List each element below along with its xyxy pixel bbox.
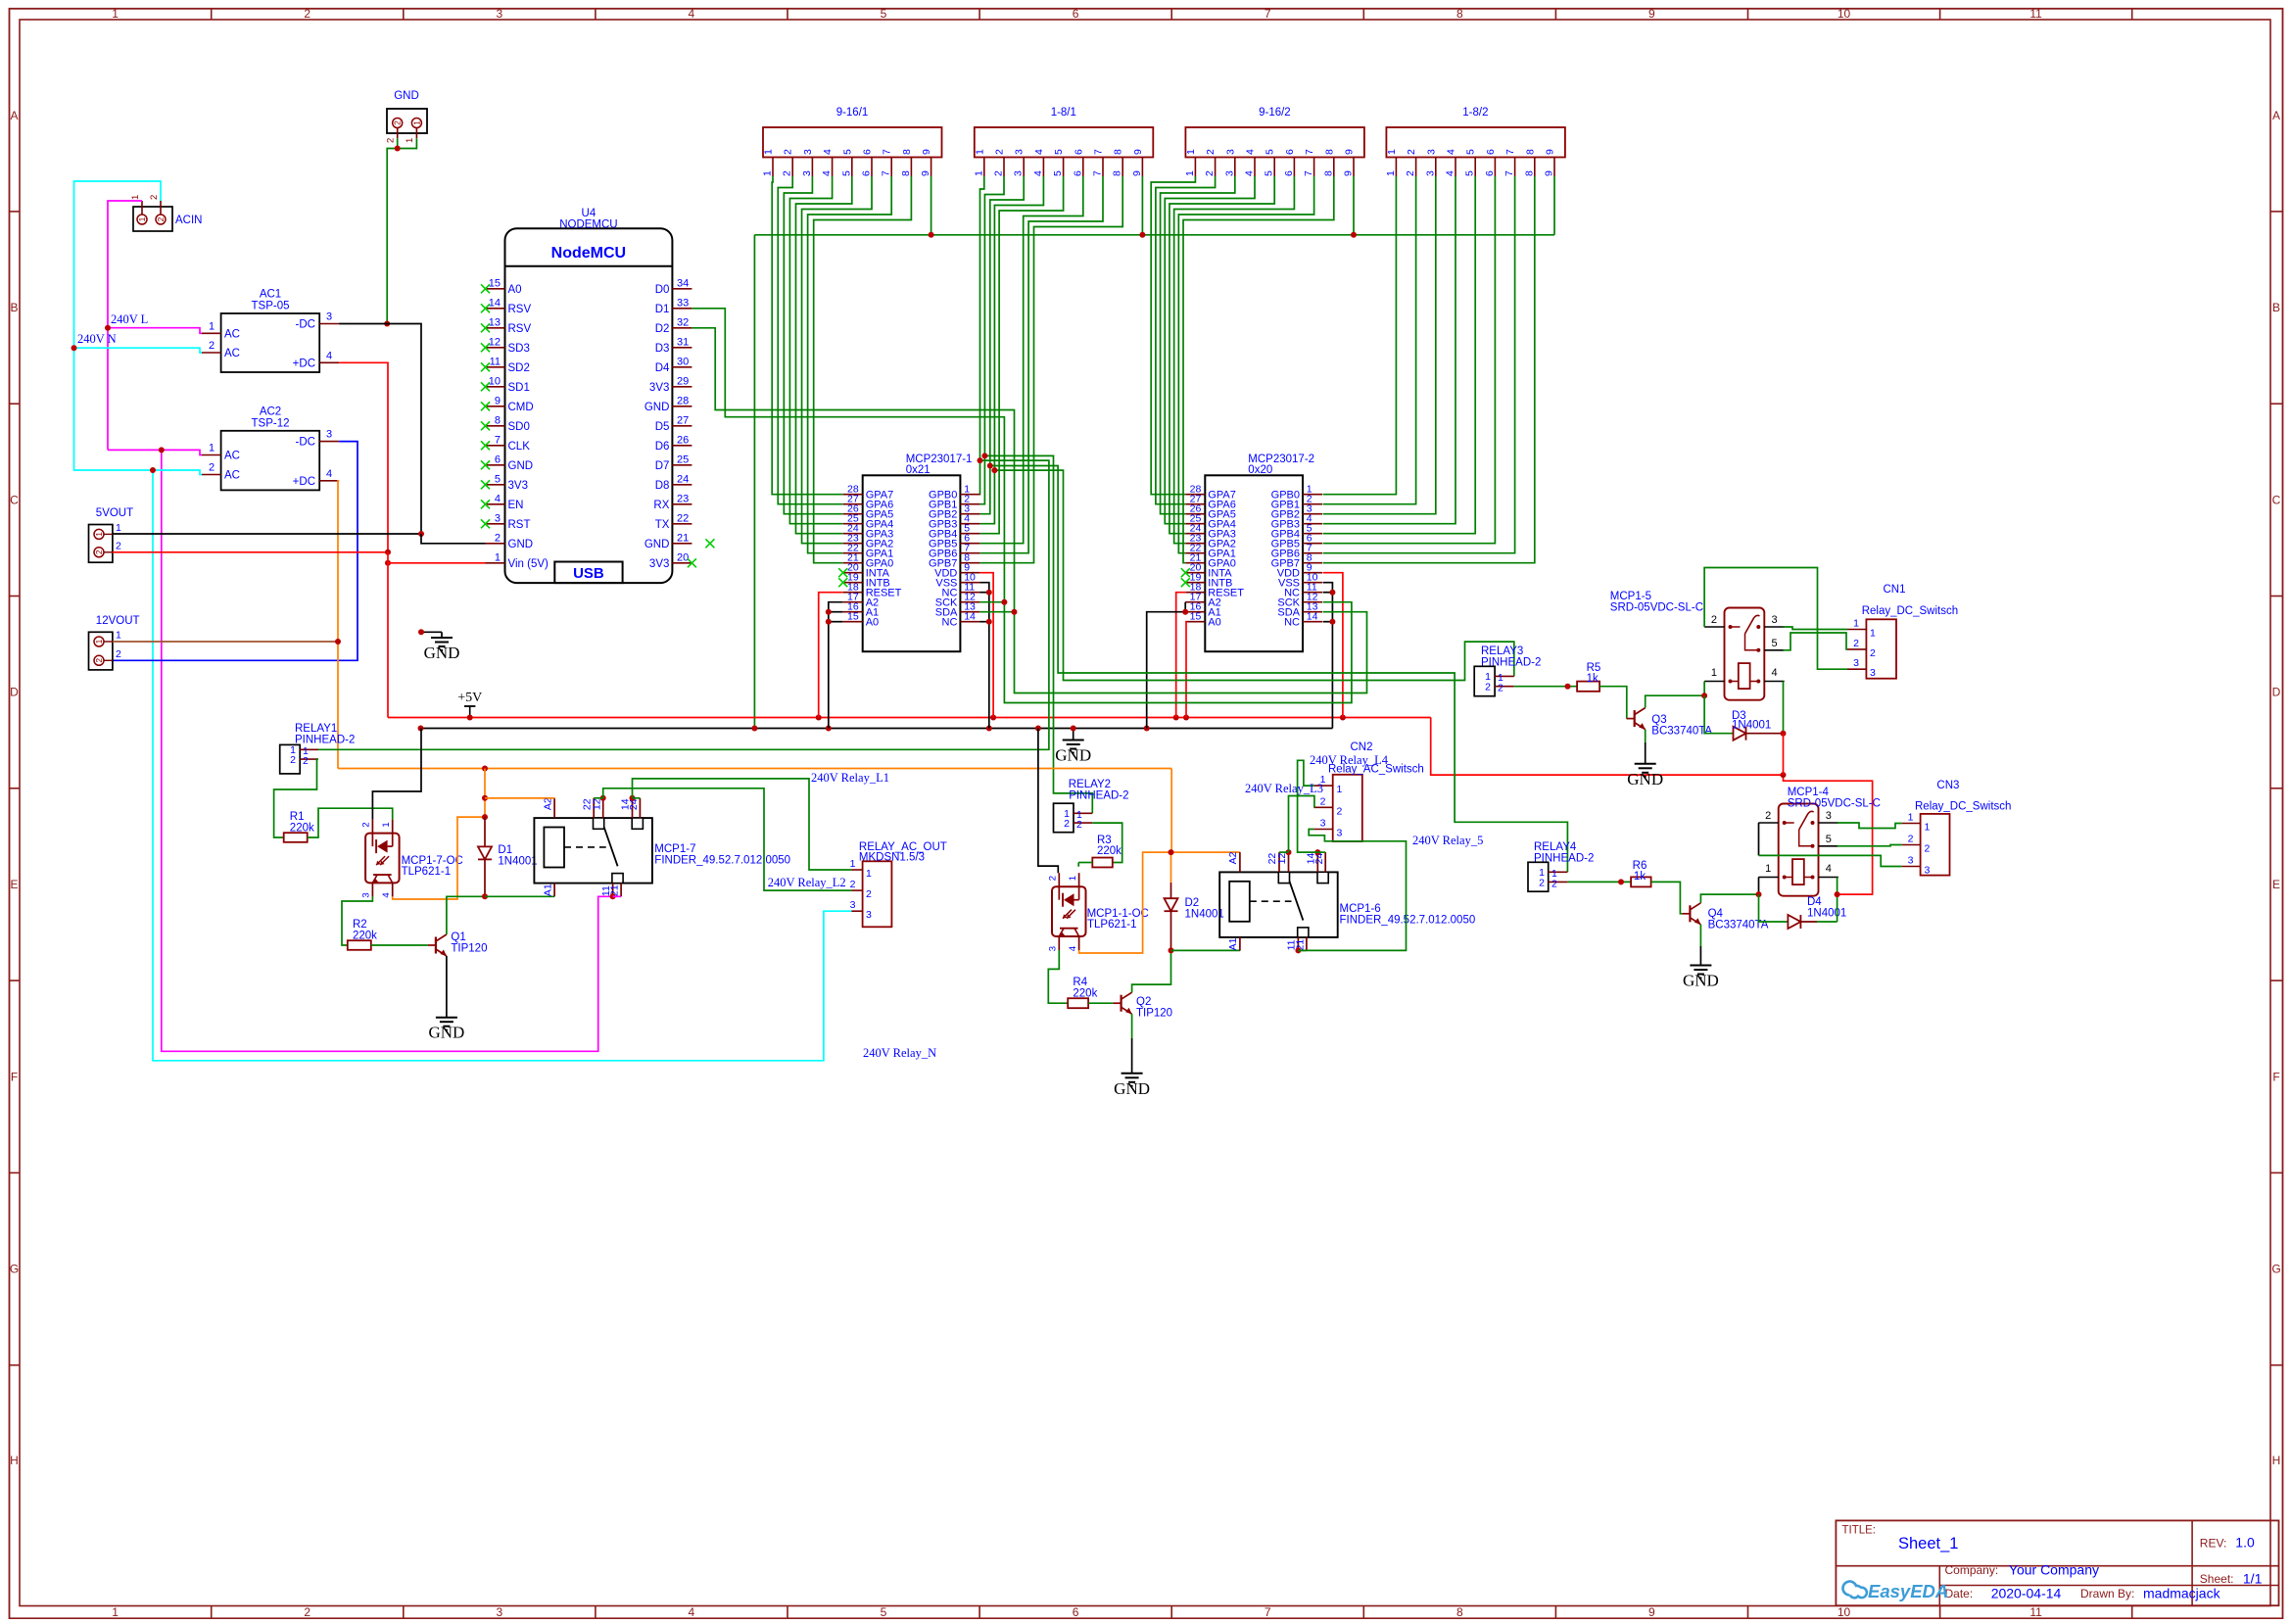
junction MCP2 NC pins — [1329, 590, 1335, 625]
svg-text:2: 2 — [1485, 681, 1491, 693]
svg-text:9: 9 — [1545, 149, 1556, 155]
junction GPB1 branch — [981, 453, 987, 458]
wire MCP1 A2 A1 A0 black — [829, 602, 843, 729]
svg-text:EasyEDA: EasyEDA — [1868, 1581, 1948, 1601]
wire R2 to Q1 base — [371, 944, 428, 946]
svg-text:MKDSN1.5/3: MKDSN1.5/3 — [859, 852, 925, 864]
svg-text:D1: D1 — [655, 304, 670, 315]
svg-text:24: 24 — [677, 473, 689, 485]
svg-text:2: 2 — [1551, 878, 1557, 889]
svg-text:26: 26 — [677, 434, 689, 446]
svg-text:4: 4 — [1445, 170, 1456, 176]
wire MCP1 GPB2 to RELAY4 — [990, 466, 1568, 873]
svg-text:GND: GND — [1055, 746, 1091, 765]
svg-text:1: 1 — [850, 858, 856, 870]
svg-text:PINHEAD-2: PINHEAD-2 — [1481, 656, 1541, 668]
svg-text:12: 12 — [591, 798, 602, 810]
svg-text:3V3: 3V3 — [649, 382, 669, 394]
junction Q3 node — [1701, 693, 1707, 698]
optocoupler MCP1-1-OC TLP621-1 — [1047, 873, 1085, 951]
svg-text:1: 1 — [94, 639, 104, 644]
svg-text:220k: 220k — [353, 930, 377, 941]
svg-text:8: 8 — [1113, 149, 1124, 155]
svg-text:9: 9 — [920, 170, 931, 176]
svg-text:4: 4 — [1068, 946, 1078, 951]
junction D1 bottom — [482, 893, 488, 899]
svg-text:2: 2 — [209, 462, 215, 474]
svg-text:2: 2 — [495, 532, 501, 544]
svg-text:BC33740TA: BC33740TA — [1708, 919, 1769, 931]
svg-text:9-16/1: 9-16/1 — [836, 107, 869, 119]
svg-text:PINHEAD-2: PINHEAD-2 — [1534, 852, 1594, 864]
svg-text:25: 25 — [677, 454, 689, 465]
svg-text:1-8/1: 1-8/1 — [1051, 107, 1076, 119]
svg-text:3: 3 — [1224, 149, 1236, 155]
svg-text:12: 12 — [1276, 853, 1288, 865]
net label 240V Relay_N — [863, 1046, 936, 1060]
power module AC1 TSP-05 — [202, 289, 339, 372]
svg-text:TIP120: TIP120 — [1136, 1007, 1172, 1019]
svg-text:2: 2 — [1047, 876, 1058, 881]
svg-text:D8: D8 — [655, 480, 670, 492]
svg-text:5: 5 — [1052, 170, 1064, 176]
svg-text:10: 10 — [1838, 1605, 1851, 1619]
svg-text:Sheet:: Sheet: — [2200, 1572, 2234, 1586]
svg-text:1: 1 — [381, 822, 392, 827]
svg-text:23: 23 — [677, 493, 689, 504]
svg-text:5: 5 — [881, 1605, 887, 1619]
svg-text:FINDER_49.52.7.012.0050: FINDER_49.52.7.012.0050 — [654, 854, 790, 866]
svg-text:3: 3 — [801, 170, 813, 176]
wire D1 to relay A1 — [485, 895, 554, 897]
wire bundle 9-16/2 to MCP2 GPA — [1151, 176, 1334, 563]
opto1 labels — [402, 855, 463, 878]
svg-text:D3: D3 — [655, 343, 670, 355]
svg-text:6: 6 — [1284, 149, 1296, 155]
svg-text:1: 1 — [1870, 628, 1876, 640]
svg-text:Q1: Q1 — [451, 931, 465, 943]
svg-text:D: D — [10, 686, 19, 699]
svg-text:SD1: SD1 — [508, 382, 530, 394]
wire AC2 -DC blue to 12VOUT — [113, 442, 358, 661]
svg-text:220k: 220k — [1073, 987, 1097, 999]
svg-text:2: 2 — [1711, 614, 1717, 626]
junction gnd header — [395, 146, 401, 152]
svg-text:MCP1-7: MCP1-7 — [654, 843, 695, 855]
svg-text:4: 4 — [1032, 170, 1044, 176]
svg-text:4: 4 — [822, 149, 834, 155]
net label 240V Relay_L4 — [1310, 753, 1389, 767]
relay MCP1-7 FINDER — [534, 797, 652, 896]
svg-text:4: 4 — [1446, 149, 1457, 155]
svg-text:R4: R4 — [1073, 977, 1087, 988]
svg-text:6: 6 — [1073, 7, 1079, 21]
svg-text:AC: AC — [224, 470, 240, 482]
junction GPB0 branch — [978, 457, 983, 463]
svg-text:8: 8 — [1524, 149, 1536, 155]
svg-text:2: 2 — [1205, 149, 1217, 155]
svg-text:SD3: SD3 — [508, 343, 530, 355]
svg-text:5: 5 — [881, 7, 887, 21]
svg-text:5: 5 — [1464, 170, 1476, 176]
svg-text:3: 3 — [1908, 855, 1914, 867]
svg-text:BC33740TA: BC33740TA — [1651, 725, 1712, 737]
svg-text:8: 8 — [900, 170, 912, 176]
wire D2 to relay2 A1 — [1171, 949, 1240, 951]
svg-text:Company:: Company: — [1945, 1563, 1999, 1577]
svg-text:4: 4 — [1826, 863, 1832, 875]
svg-text:PINHEAD-2: PINHEAD-2 — [295, 734, 355, 745]
svg-text:3: 3 — [802, 149, 814, 155]
wire 5VOUT pin2 red — [113, 551, 388, 553]
junction D2 bottom — [1169, 947, 1174, 953]
wire MCP1-5 pin2 loop to CN1 pin3 — [1704, 568, 1847, 670]
svg-text:3: 3 — [326, 311, 332, 323]
svg-text:Date:: Date: — [1945, 1587, 1974, 1600]
resistor R3 220k — [1092, 835, 1122, 867]
svg-text:6: 6 — [1073, 1605, 1079, 1619]
svg-text:+5V: +5V — [457, 691, 482, 705]
connector RELAY_AC_OUT MKDSN1.5/3 — [850, 841, 947, 927]
power flag +5V — [457, 691, 482, 718]
svg-text:9: 9 — [1344, 149, 1356, 155]
wire MCP1-5 pin1 green — [1703, 682, 1705, 696]
svg-text:2: 2 — [156, 216, 166, 221]
svg-text:1: 1 — [137, 216, 147, 221]
svg-text:4: 4 — [689, 1605, 695, 1619]
svg-text:3: 3 — [866, 909, 872, 921]
wire R1 to opto1 pin2 — [308, 808, 393, 837]
svg-text:1: 1 — [974, 149, 985, 155]
svg-text:NC: NC — [942, 617, 958, 629]
svg-text:5: 5 — [841, 149, 853, 155]
svg-text:6: 6 — [862, 149, 874, 155]
wire AC1 -DC black to NodeMCU GND — [339, 324, 421, 535]
svg-text:4: 4 — [1245, 149, 1257, 155]
optocoupler MCP1-7-OC TLP621-1 — [360, 820, 399, 898]
svg-text:A0: A0 — [508, 284, 522, 296]
svg-text:A: A — [10, 109, 18, 122]
svg-text:7: 7 — [1303, 170, 1314, 176]
svg-text:GND: GND — [1627, 770, 1663, 788]
wire relay1 pin12 to RELAY_AC_OUT pin2 — [603, 788, 852, 890]
junction relay2 bottom 11 21 — [1295, 947, 1301, 953]
svg-text:2: 2 — [209, 340, 215, 352]
svg-text:4: 4 — [821, 170, 833, 176]
wire black gnd jog to NodeMCU pin2 — [421, 534, 486, 544]
wire orange relay2 branch — [1171, 769, 1240, 884]
svg-text:5: 5 — [840, 170, 852, 176]
wire R5 to Q3 base — [1599, 687, 1627, 719]
svg-text:2: 2 — [993, 170, 1005, 176]
svg-text:G: G — [10, 1263, 19, 1276]
svg-text:7: 7 — [1504, 149, 1516, 155]
svg-text:REV:: REV: — [2200, 1537, 2227, 1551]
svg-text:1: 1 — [973, 170, 984, 176]
svg-text:3V3: 3V3 — [649, 558, 669, 570]
svg-text:6: 6 — [1283, 170, 1295, 176]
junction 5V vin node — [385, 549, 391, 566]
svg-text:SRD-05VDC-SL-C: SRD-05VDC-SL-C — [1610, 602, 1703, 614]
svg-text:3: 3 — [496, 1605, 502, 1619]
connector RELAY1 PINHEAD-2 — [280, 723, 356, 774]
junction gnd bus dots — [418, 726, 1150, 732]
svg-text:1: 1 — [1853, 618, 1859, 630]
wire Q2 collector green — [1132, 950, 1171, 992]
svg-text:Sheet_1: Sheet_1 — [1898, 1535, 1958, 1552]
svg-text:C: C — [10, 493, 19, 506]
net label 240V N — [77, 332, 117, 346]
svg-text:D: D — [2272, 686, 2281, 699]
svg-text:7: 7 — [881, 170, 892, 176]
svg-text:PINHEAD-2: PINHEAD-2 — [1069, 789, 1128, 801]
svg-text:SD2: SD2 — [508, 362, 530, 374]
x-mark nodemcu pin21 — [705, 539, 714, 548]
junction 240V L — [105, 325, 165, 454]
wire opto2 pin4 orange — [1079, 852, 1171, 953]
svg-text:Your Company: Your Company — [2009, 1562, 2099, 1578]
svg-text:1: 1 — [116, 522, 121, 534]
svg-text:1: 1 — [1925, 822, 1931, 834]
svg-text:11: 11 — [490, 356, 501, 367]
svg-text:A0: A0 — [866, 617, 879, 629]
svg-text:2: 2 — [94, 549, 104, 554]
svg-text:3: 3 — [1320, 818, 1326, 830]
wire MCP2 A0 red — [1184, 622, 1187, 718]
opto2 labels — [1087, 908, 1149, 931]
wire 5VOUT pin1 black — [113, 533, 421, 535]
wire orange to relay1 A2 — [485, 797, 554, 799]
wire relay1 12 22 join — [594, 797, 603, 799]
junction gnd/-DC — [384, 321, 390, 327]
wire relay2 14 24 join — [1317, 851, 1325, 853]
svg-text:madmacjack: madmacjack — [2143, 1586, 2221, 1601]
svg-text:GND: GND — [394, 90, 419, 102]
svg-text:2: 2 — [1765, 810, 1771, 822]
svg-text:Relay_DC_Switsch: Relay_DC_Switsch — [1915, 801, 2011, 813]
ic MCP23017-1 0x21 — [838, 454, 979, 651]
net label 240V Relay_L3 — [1245, 782, 1323, 795]
svg-text:2: 2 — [1204, 170, 1216, 176]
wire MCP1 GPB3 to RELAY3 — [994, 470, 1513, 680]
svg-text:11: 11 — [2029, 1605, 2042, 1619]
connector CN2 Relay_AC_Switsch — [1313, 741, 1423, 841]
svg-text:U4: U4 — [582, 208, 597, 219]
svg-text:GND: GND — [424, 644, 460, 662]
svg-text:1/1: 1/1 — [2243, 1571, 2263, 1587]
svg-text:15: 15 — [847, 611, 859, 623]
wire R3 to opto2 pin1 — [1078, 863, 1092, 867]
junction 5V gnd node — [418, 531, 424, 537]
svg-text:7: 7 — [495, 434, 501, 446]
svg-text:8: 8 — [1456, 1605, 1463, 1619]
svg-text:5: 5 — [1465, 149, 1477, 155]
svg-text:7: 7 — [1093, 149, 1105, 155]
svg-text:7: 7 — [1092, 170, 1104, 176]
power module AC2 TSP-12 — [202, 406, 339, 490]
svg-text:220k: 220k — [1097, 845, 1122, 857]
connector CN3 Relay_DC_Switsch — [1902, 780, 2012, 877]
transistor Q1 TIP120 — [428, 934, 447, 956]
svg-text:3: 3 — [1013, 170, 1025, 176]
wire orange relay1 branch — [485, 769, 554, 818]
svg-text:GND: GND — [428, 1024, 464, 1042]
svg-text:2: 2 — [1064, 818, 1070, 830]
svg-text:SRD-05VDC-SL-C: SRD-05VDC-SL-C — [1788, 798, 1881, 810]
svg-text:ACIN: ACIN — [175, 215, 202, 226]
resistor R1 220k — [284, 811, 314, 842]
wire MCP2 A2 A1 black — [1147, 602, 1186, 729]
svg-text:240V N: 240V N — [77, 332, 117, 346]
net label 240V Relay_L1 — [811, 771, 889, 785]
connector 5VOUT — [89, 507, 134, 562]
svg-text:15: 15 — [489, 277, 501, 289]
svg-text:D7: D7 — [655, 460, 670, 472]
svg-text:3: 3 — [1014, 149, 1026, 155]
svg-text:12VOUT: 12VOUT — [96, 615, 140, 627]
svg-text:2: 2 — [149, 195, 160, 200]
svg-text:TX: TX — [655, 519, 670, 531]
svg-text:5VOUT: 5VOUT — [96, 507, 133, 519]
svg-text:1: 1 — [411, 120, 421, 125]
wire MCP1 VSS NC black — [979, 583, 988, 729]
svg-text:F: F — [2272, 1070, 2279, 1083]
wire opto1 pin4 orange — [393, 817, 485, 899]
wire MCP1 RESET red — [819, 593, 843, 718]
x-mark nodemcu pin20 — [688, 558, 696, 567]
svg-text:9: 9 — [1132, 149, 1144, 155]
svg-text:B: B — [2272, 301, 2280, 314]
svg-text:GND: GND — [644, 539, 670, 550]
svg-text:AC2: AC2 — [260, 406, 281, 417]
svg-text:3: 3 — [1047, 946, 1058, 951]
svg-text:RX: RX — [653, 500, 669, 511]
svg-text:14: 14 — [489, 297, 501, 309]
wire 240V L magenta — [108, 201, 613, 1051]
wire MCP2 RESET red — [1176, 593, 1186, 718]
junction 12V rail — [335, 639, 341, 645]
svg-text:2: 2 — [290, 754, 296, 766]
relay MCP1-4 SRD-05VDC-SL-C — [1758, 804, 1838, 896]
svg-text:240V Relay_N: 240V Relay_N — [863, 1046, 936, 1060]
relay MCP1-5 SRD-05VDC-SL-C — [1704, 608, 1785, 700]
svg-text:1: 1 — [1385, 170, 1397, 176]
wire opto1 pin3 to R2 — [342, 896, 372, 945]
wire GND bus black — [421, 728, 1333, 730]
svg-text:6: 6 — [1484, 170, 1496, 176]
gnd symbol under nodemcu — [421, 632, 459, 662]
svg-text:240V Relay_L3: 240V Relay_L3 — [1245, 782, 1323, 795]
junction GPB3 branch — [991, 467, 997, 473]
net label 240V Relay_L2 — [768, 876, 846, 889]
connector GND header P1 — [386, 90, 428, 143]
svg-text:CN3: CN3 — [1936, 780, 1959, 791]
wire bundle 1-8/1 to MCP1 GPB — [979, 176, 1122, 563]
svg-text:D4: D4 — [1807, 896, 1822, 908]
gnd symbol Q3 — [1627, 764, 1663, 788]
diode D4 1N4001 — [1788, 915, 1817, 929]
svg-text:2: 2 — [1076, 819, 1082, 831]
svg-text:7: 7 — [1503, 170, 1515, 176]
svg-text:TSP-05: TSP-05 — [252, 301, 290, 312]
mcp1-7 labels — [654, 843, 790, 866]
wire AC1 +DC red — [339, 362, 388, 552]
svg-text:Q4: Q4 — [1708, 908, 1724, 920]
svg-text:7: 7 — [1265, 7, 1271, 21]
svg-text:9: 9 — [1648, 1605, 1655, 1619]
junction SDA — [1012, 609, 1018, 615]
svg-text:2: 2 — [1406, 149, 1417, 155]
svg-text:1N4001: 1N4001 — [1185, 908, 1224, 920]
svg-text:TITLE:: TITLE: — [1842, 1525, 1877, 1537]
svg-text:Vin (5V): Vin (5V) — [508, 558, 549, 570]
svg-text:9: 9 — [1343, 170, 1355, 176]
svg-text:2: 2 — [360, 822, 371, 827]
wire RELAY3 pin2 to R5 — [1514, 686, 1577, 688]
connector ACIN — [130, 195, 202, 231]
svg-text:GND: GND — [508, 460, 534, 472]
svg-text:C: C — [2272, 493, 2281, 506]
junction MCP1 NC pins — [986, 590, 992, 625]
wire Q1 emitter to gnd — [446, 956, 448, 1018]
wire Q4 emitter to gnd — [1699, 925, 1701, 966]
svg-text:FINDER_49.52.7.012.0050: FINDER_49.52.7.012.0050 — [1340, 914, 1476, 926]
svg-text:9: 9 — [921, 149, 932, 155]
connector RELAY3 PINHEAD-2 — [1474, 645, 1541, 696]
svg-text:20: 20 — [677, 551, 689, 563]
gnd symbol Q4 — [1683, 966, 1719, 990]
svg-text:GND: GND — [1683, 972, 1719, 990]
svg-text:15: 15 — [1190, 611, 1202, 623]
svg-text:7: 7 — [882, 149, 893, 155]
svg-text:2: 2 — [1908, 834, 1914, 845]
svg-text:B: B — [10, 301, 18, 314]
svg-text:Relay_DC_Switsch: Relay_DC_Switsch — [1862, 605, 1958, 617]
svg-text:2: 2 — [1498, 682, 1503, 693]
d3 labels — [1732, 710, 1771, 732]
svg-text:5: 5 — [1264, 170, 1275, 176]
svg-text:4: 4 — [689, 7, 695, 21]
wire MCP1-4 pin3 to CN3 pin1 — [1838, 823, 1902, 829]
svg-text:AC1: AC1 — [260, 289, 281, 301]
svg-text:3: 3 — [1826, 810, 1832, 822]
svg-text:3: 3 — [1425, 149, 1437, 155]
wire RELAY1 pin2 to R1 — [274, 759, 318, 837]
d1 labels — [498, 844, 537, 867]
svg-text:2: 2 — [116, 648, 121, 660]
wire relay1 pin14 to RELAY_AC_OUT pin1 — [633, 779, 852, 870]
svg-text:A: A — [2272, 109, 2280, 122]
wire Q3 node to D3 — [1704, 695, 1733, 734]
svg-text:1: 1 — [495, 551, 501, 563]
svg-text:6: 6 — [1072, 170, 1083, 176]
gnd symbol Q2 — [1114, 1074, 1150, 1098]
connector 9-16/2 — [1184, 107, 1364, 176]
wire opto2 pin3 to R4 — [1048, 950, 1068, 1003]
junction D4 node — [1835, 891, 1840, 897]
svg-text:4: 4 — [1772, 667, 1778, 679]
svg-text:Q2: Q2 — [1136, 996, 1151, 1008]
svg-text:5: 5 — [1265, 149, 1276, 155]
svg-text:11: 11 — [2029, 7, 2042, 21]
transistor Q2 TIP120 — [1114, 992, 1132, 1014]
svg-text:A1: A1 — [1227, 937, 1239, 950]
svg-text:1: 1 — [1386, 149, 1398, 155]
svg-text:EN: EN — [508, 500, 524, 511]
svg-text:D2: D2 — [655, 323, 670, 335]
svg-text:240V Relay_L4: 240V Relay_L4 — [1310, 753, 1389, 767]
svg-text:1: 1 — [1765, 863, 1771, 875]
